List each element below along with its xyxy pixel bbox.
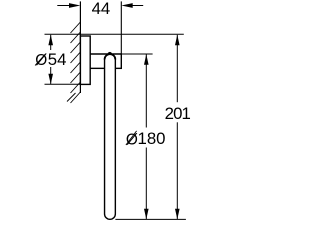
svg-text:54: 54	[48, 50, 67, 69]
dim 180 down arrowhead	[144, 209, 149, 220]
hanger pin nub on ring top	[107, 52, 112, 55]
svg-text:180: 180	[138, 129, 166, 148]
svg-text:201: 201	[165, 104, 191, 123]
svg-text:Ø: Ø	[126, 132, 138, 149]
dim 180 up arrowhead	[144, 54, 149, 64]
dim 54 up arrowhead	[48, 35, 53, 46]
bottom extension line (ring bottom, for dims 180 and 201)	[115, 218, 185, 220]
dim 54 dimension line lower part	[50, 67, 52, 84]
dim 201 up arrowhead	[175, 35, 180, 46]
towel ring (side view stadium)	[105, 54, 116, 219]
dim 201 dimension line lower part	[176, 122, 178, 219]
dim 201 dimension line upper part	[176, 35, 178, 102]
holder bottom edge right	[116, 67, 122, 69]
wall surface line	[79, 1, 81, 93]
wall hatching	[67, 22, 80, 103]
dim 54 dimension line upper part	[50, 35, 52, 50]
dim 54 down arrowhead	[48, 74, 53, 85]
dimension 44 left arrowhead	[69, 3, 80, 8]
svg-text:44: 44	[92, 0, 111, 18]
dimension 44 dimension line left tail	[57, 5, 69, 7]
holder front edge	[120, 53, 122, 68]
dim 180 dimension line upper part	[145, 54, 147, 127]
extension line top (plate top, for dim 201 and dim 54)	[45, 33, 184, 35]
svg-text:Ø: Ø	[35, 52, 47, 69]
wall plate (escutcheon side view)	[80, 36, 90, 84]
ring crown arc (thicker stroke at top)	[105, 54, 116, 59]
dim 180 dimension line lower part	[145, 148, 147, 220]
dimension 44 dimension line right tail	[133, 5, 144, 7]
holder arm top edge	[90, 53, 121, 55]
dimension 44 extension line (front of holder)	[120, 1, 122, 54]
holder bottom edge left	[90, 67, 105, 69]
holder arm top extension line (for dim 180)	[121, 53, 152, 55]
extension line bottom of plate (for dim 54)	[45, 83, 81, 85]
dimension 44 right arrowhead	[121, 3, 132, 8]
dim 201 down arrowhead	[175, 209, 180, 220]
